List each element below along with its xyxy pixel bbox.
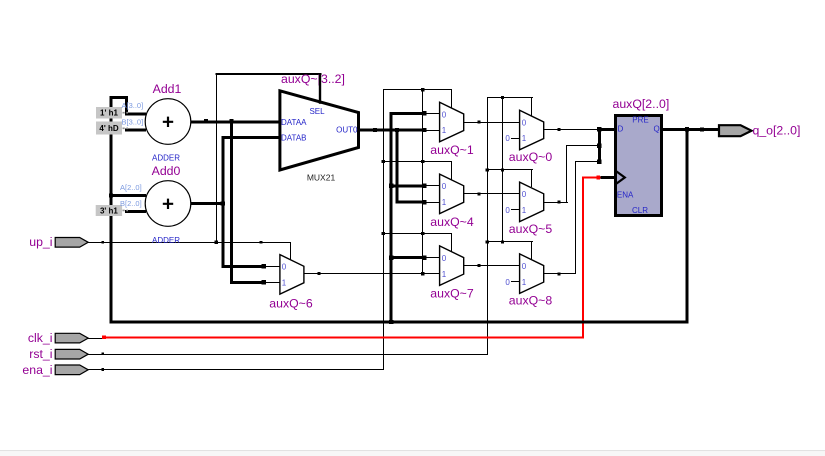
wire rst_i horizontal run [88,354,488,355]
svg-text:1: 1 [442,126,447,135]
bus register Q output to q_o pin [662,128,720,131]
wire auxQ~8 out horizontal [544,273,576,274]
bus Q feedback vertical x=687 [686,128,689,324]
wire ena sel level3 drop to auxQ~7 [451,233,452,252]
svg-text:0: 0 [442,254,447,263]
svg-text:1' h1: 1' h1 [100,109,118,118]
wire clk_i black stub before red [88,338,103,339]
wire auxQ~5 out upper horizontal y=145.7 [566,145,598,146]
svg-text:0: 0 [442,182,447,191]
register clock triangle [615,171,625,185]
junction dot up_i mid [260,241,263,244]
svg-text:auxQ~4: auxQ~4 [430,215,474,229]
mux auxQ~5 [520,182,544,222]
pin input ena_i [55,365,88,375]
constant 1'h1 dashes [123,112,129,114]
svg-text:0: 0 [522,190,527,199]
bus auxQ~4 in0 horizontal y=186 [390,184,425,187]
wire rst sel level3 horizontal y=241.9 [487,241,533,242]
wire ena sel level2 drop to auxQ~4 [451,161,452,181]
wire auxQ~6 pin stub in0 [264,266,280,267]
wire auxQ~5 out horizontal [544,202,568,203]
junction dot rst cascade low [501,240,504,243]
svg-text:4' hD: 4' hD [99,124,118,133]
svg-text:0: 0 [522,262,527,271]
wire red clk top horizontal into register [582,177,600,179]
adder Add0 [145,181,191,227]
bus register clock stub [601,176,616,179]
constant 1'h1 box [96,107,122,119]
bus D input collector vertical x=599.3 [598,127,601,164]
svg-text:DATAB: DATAB [281,133,306,142]
junction dot rst riser level3 [486,240,489,243]
svg-text:0: 0 [282,263,287,272]
wire red clk horizontal run [103,337,585,339]
junction red at clk pin [102,335,106,339]
mux auxQ~4 [440,174,464,214]
svg-text:auxQ~8: auxQ~8 [509,294,553,308]
wire auxQ~8 out vertical riser x=575.3 [575,161,576,274]
wire auxQ~7 pin stub in0 [424,257,439,258]
mux auxQ~1 [440,102,464,142]
svg-text:auxQ[2..0]: auxQ[2..0] [613,97,670,111]
junction Add1 out nub1 [204,119,208,123]
wire auxQ~6 pin stub in1 [264,282,280,283]
junction nub MUX21 out [373,128,377,132]
junction V1 auxQ~7 tap [389,256,393,260]
wire tie-0 dash auxQ~8 in1 [511,281,520,282]
svg-text:ena_i: ena_i [22,363,52,377]
bus auxQ~6 in0 horizontal y=266.3 [221,265,263,268]
wire auxQ~0 out to D bus [544,129,598,130]
wire ena sel level3 horizontal y=233.4 [383,233,451,234]
svg-text:A[3..0]: A[3..0] [122,101,144,110]
svg-text:auxQ~0: auxQ~0 [509,150,553,164]
wire auxQ~4 out to auxQ~5 in0 [464,193,520,194]
junction D bus top [597,127,601,131]
bus V1 Q-feedback distribution x=391.2 [390,112,393,324]
svg-text:D: D [618,125,624,134]
svg-text:auxQ~7: auxQ~7 [430,287,474,301]
junction nub auxQ~6 in1 [262,280,266,284]
junction dot auxQ~0 out nub [557,128,560,131]
junction dot ena cascade on aux7in1 [421,272,424,275]
wire tie-0 dash auxQ~0 in1 [511,138,520,139]
bus MUX21 OUT0 to auxQ~1 in1 [359,129,425,132]
svg-text:OUT0: OUT0 [336,125,358,134]
svg-text:0: 0 [442,110,447,119]
svg-text:ENA: ENA [617,190,634,199]
junction D bus bottom [597,160,601,164]
junction nub auxQ~7 in0 [422,256,426,260]
wire auxQ~1 out to auxQ~0 in0 [464,122,520,123]
mux auxQ~7 [440,246,464,286]
mux auxQ~8 [520,254,544,294]
mux U-MUX21 auxQ~[3..2] [280,91,359,170]
junction nub auxQ~1 in1 [422,128,426,132]
junction dot rst cascade top [501,96,504,99]
svg-text:PRE: PRE [632,115,648,124]
svg-text:3' h1: 3' h1 [100,206,118,215]
svg-text:0: 0 [522,118,527,127]
wire MUX21 SEL drop overlay (drawn over title text) [319,74,321,104]
bus Add0 A-input horizontal y=195.5 [110,194,146,197]
svg-text:SEL: SEL [309,107,325,116]
junction nub auxQ~1 in0 [422,111,426,115]
constant 4'hD box [96,122,122,135]
bottom window edge line [0,450,825,451]
junction Q output feedback tap [685,127,689,131]
bus Add0 output [191,202,225,205]
bus left feedback vertical x=111 [110,96,113,323]
wire auxQ~1 pin stub in1 [424,130,439,131]
wire rst_i vertical riser x=487.3 [487,97,488,355]
bus Add0 B-input horizontal y=211.5 [125,210,146,213]
svg-text:Add1: Add1 [153,82,182,96]
svg-text:MUX21: MUX21 [307,172,336,182]
bus Add1 B-input horizontal y=130.2 [125,129,146,132]
bus V2 OUT0 distribution x=397 [396,129,399,204]
pin input up_i [55,238,88,248]
wire auxQ~8 out upper horizontal y=161.7 [575,161,599,162]
bus auxQ~1 in0 horizontal y=113.3 [390,112,425,115]
svg-text:1: 1 [442,198,447,207]
wire up_i horizontal run [88,242,291,243]
svg-text:auxQ~5: auxQ~5 [509,222,553,236]
wire ena_i vertical riser x=383 [383,89,384,370]
wire red clk vertical riser x=583.1 [582,177,584,339]
pin input rst_i [55,349,88,359]
svg-text:Q: Q [654,125,660,134]
junction red at register clock stub [596,176,600,180]
bus Add1 A-input horizontal y=114 [125,113,146,116]
junction OUT0 x V2 [395,128,399,132]
svg-text:1: 1 [522,278,527,287]
bus Add1 A-input vertical x=126.3 [125,96,128,115]
junction nub auxQ~6 in0 [262,264,266,268]
mux auxQ~0 [520,110,544,150]
junction dot ena_i near pin [102,368,105,371]
junction dot rst cascade mid [501,168,504,171]
svg-text:B[2..0]: B[2..0] [120,199,142,208]
wire auxQ~4 pin stub in0 [424,185,439,186]
bus vertical VA x=222.8 (Add0 result) [221,136,224,268]
wire auxQ~5 out vertical riser x=566.8 [566,145,567,203]
bus Add1 output to MUX21 DATAA [191,120,280,123]
wire rst sel level2 drop to auxQ~5 [531,169,532,187]
svg-text:1: 1 [282,279,287,288]
wire ena_i horizontal run [88,369,384,370]
svg-text:ADDER: ADDER [152,153,180,162]
svg-text:1: 1 [442,270,447,279]
svg-text:A[2..0]: A[2..0] [120,183,142,192]
pin input clk_i [55,333,88,343]
junction dot rst riser level2 [486,168,489,171]
constant 4'hD dashes [123,127,129,129]
svg-text:0: 0 [505,134,510,143]
junction dot ena cascade top [421,88,424,91]
junction dot auxQ~5 out nub [557,201,560,204]
junction D bus mid [597,144,601,148]
junction dot up_i near pin [102,241,105,244]
junction dot ena cascade low [421,232,424,235]
bus vertical VB x=231.6 (Add1 result) [230,120,233,283]
junction dot auxQ~1 out nub [478,121,481,124]
svg-text:up_i: up_i [29,235,52,249]
svg-text:B[3..0]: B[3..0] [122,118,144,127]
junction dot ena riser level2 [382,160,385,163]
junction dot auxQ~4 out nub [478,192,481,195]
wire rst sel level3 drop to auxQ~8 [531,241,532,259]
svg-text:auxQ~6: auxQ~6 [269,297,313,311]
bus auxQ~7 in0 horizontal y=257.8 [390,256,425,259]
wire up_i top horizontal to MUX21 SEL [216,73,322,75]
junction dot up_i riser [215,241,218,244]
junction dot auxQ~7 out nub [478,264,481,267]
bus MUX21 DATAB horizontal y=137.4 [221,136,280,139]
svg-text:rst_i: rst_i [29,347,52,361]
junction Add0 out x VA [221,201,225,205]
svg-text:0: 0 [505,278,510,287]
wire rst sel level1 horizontal y=97.3 [487,97,533,98]
adder Add1 [145,99,191,145]
junction nub auxQ~4 in1 [422,200,426,204]
junction V1 auxQ~4 tap [389,184,393,188]
constant 3'h1 dashes [123,209,129,211]
junction Add1 out x VB [230,119,234,123]
wire ena sel level1 drop to auxQ~1 [451,89,452,108]
junction nub q_o wire [700,128,704,132]
svg-text:q_o[2..0]: q_o[2..0] [753,124,801,138]
bus Add1 A-input top horizontal y=97.7 [110,96,128,99]
svg-text:Add0: Add0 [152,164,181,178]
wire auxQ~7 out to auxQ~8 in0 [464,265,520,266]
wire ena sel level1 horizontal y=89.7 [383,89,451,90]
svg-text:auxQ~1: auxQ~1 [430,143,474,157]
pin output q_o[2..0] [719,125,752,136]
wire auxQ~6 out to auxQ~7 in1 [304,273,440,274]
wire ena sel cascade vertical x=422.7 [422,89,423,274]
bus auxQ~6 in1 horizontal y=282.3 [230,281,264,284]
wire ena sel level2 horizontal y=161.4 [383,161,451,162]
svg-text:CLR: CLR [632,206,648,215]
bus register D stub [598,128,615,131]
wire auxQ~1 pin stub in0 [424,113,439,114]
constant 3'h1 box [96,205,122,216]
junction nub auxQ~4 in0 [422,184,426,188]
wire auxQ~6 SEL drop [290,242,291,262]
junction dot rst_i near pin [102,353,105,356]
wire auxQ~4 pin stub in1 [424,202,439,203]
wire up_i vertical riser x=216 [216,73,217,242]
mux auxQ~6 [280,255,304,295]
bus bottom feedback horizontal y=322 [110,321,689,324]
junction dot ena cascade mid [421,160,424,163]
svg-text:1: 1 [522,206,527,215]
wire rst sel level2 horizontal y=169.9 [487,169,533,170]
wire rst sel cascade vertical x=502.6 [502,97,503,243]
register auxQ[2..0] [616,116,662,216]
svg-text:0: 0 [505,206,510,215]
junction dot auxQ~6 out nub [318,272,321,275]
svg-text:clk_i: clk_i [28,331,53,345]
bus auxQ~4 in1 horizontal y=202.2 [396,201,425,204]
svg-text:DATAA: DATAA [281,118,307,127]
junction left bus Add0 A tap [109,193,113,197]
svg-text:ADDER: ADDER [152,236,180,245]
svg-text:1: 1 [522,134,527,143]
junction dot auxQ~8 out nub [557,272,560,275]
junction dot ena riser level3 [382,232,385,235]
wire tie-0 dash auxQ~5 in1 [511,209,520,210]
wire rst sel level1 drop to auxQ~0 [531,97,532,116]
svg-text:auxQ~[3..2]: auxQ~[3..2] [281,72,345,86]
wire MUX21 SEL drop [319,73,321,104]
junction V1 bottom bus [389,320,393,324]
